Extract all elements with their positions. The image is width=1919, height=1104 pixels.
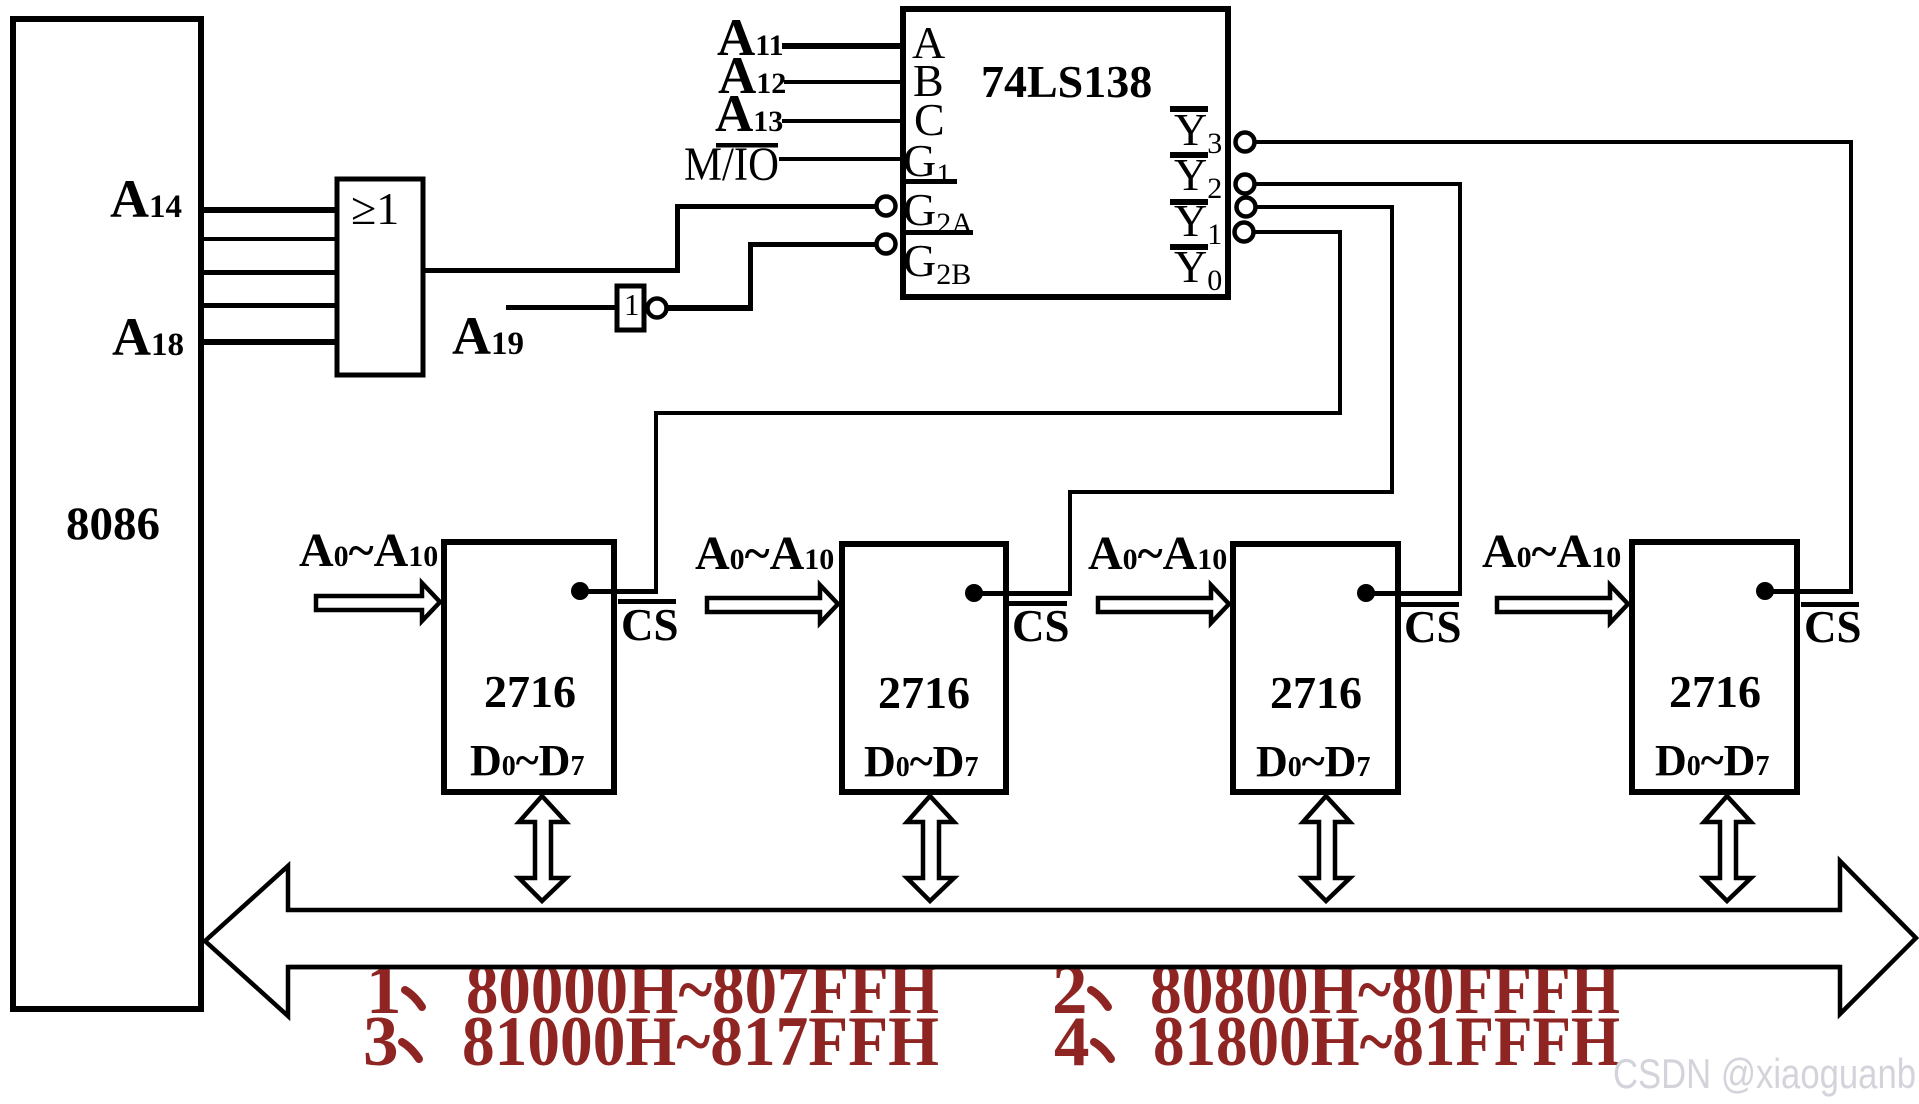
data arrow ROM3 <box>1303 796 1350 901</box>
wire A17 to OR gate <box>201 303 338 308</box>
label A19 <box>452 306 524 366</box>
ROM3 CS junction dot <box>1357 584 1462 602</box>
ROM U8 2716 <box>1632 542 1797 792</box>
pin label C <box>914 94 945 145</box>
wire Y0 to ROM1 CS <box>654 230 1342 593</box>
svg-text:2716: 2716 <box>1270 667 1362 718</box>
output bubble Y0 <box>1235 223 1254 242</box>
svg-text:4: 4 <box>1054 1003 1090 1081</box>
label A0~A10 ROM1 <box>299 524 438 577</box>
pin label G2B <box>903 235 971 291</box>
pin label A18 <box>112 307 184 367</box>
CPU U1 8086 <box>13 19 201 1009</box>
pin label A <box>912 17 945 68</box>
wire A12 to pin B <box>784 80 900 84</box>
data arrow ROM4 <box>1704 796 1751 901</box>
label A13 <box>715 85 783 143</box>
svg-text:81800H~81FFFH: 81800H~81FFFH <box>1153 1003 1620 1081</box>
svg-text:D0~D7: D0~D7 <box>864 737 978 786</box>
wire A14 to OR gate <box>201 207 338 213</box>
pin label A14 <box>110 169 182 229</box>
svg-text:2716: 2716 <box>1669 666 1761 717</box>
data arrow ROM2 <box>907 796 954 901</box>
wire Y3 to ROM4 CS <box>1254 140 1853 593</box>
output bubble Y2 <box>1236 175 1255 194</box>
wire Y1 to ROM2 CS <box>1068 205 1394 595</box>
label A11 <box>717 9 784 67</box>
svg-text:3: 3 <box>363 1003 399 1081</box>
svg-text:8086: 8086 <box>66 498 160 550</box>
label A0~A10 ROM2 <box>695 527 834 580</box>
pin label Y2 <box>1170 149 1222 205</box>
wire A13 to pin C <box>782 119 900 123</box>
wire Y2 to ROM3 CS <box>1255 182 1462 595</box>
address range annotation 4 <box>1054 1003 1620 1081</box>
svg-text:D0~D7: D0~D7 <box>470 736 584 785</box>
data arrow ROM1 <box>519 796 566 901</box>
address arrow ROM1 <box>316 583 440 621</box>
svg-text:CS: CS <box>1804 602 1862 652</box>
address range annotation 1 <box>366 951 939 1029</box>
svg-text:1: 1 <box>624 287 640 322</box>
ROM2 CS pin label <box>1009 601 1070 651</box>
wire A15 to OR gate <box>201 237 338 241</box>
wire M/IO to pin G1 <box>779 157 900 161</box>
pin label G2A <box>902 184 973 240</box>
svg-text:CS: CS <box>1404 602 1462 652</box>
pin label Y3 <box>1170 104 1222 160</box>
address arrow ROM4 <box>1497 585 1628 623</box>
svg-text:D0~D7: D0~D7 <box>1655 736 1769 785</box>
pin label Y1 <box>1170 195 1222 251</box>
wire A19 input to inverter <box>506 305 616 310</box>
output bubble Y1 <box>1237 198 1256 217</box>
svg-text:D0~D7: D0~D7 <box>1256 737 1370 786</box>
inverter output bubble <box>648 299 667 318</box>
input bubble G2B <box>877 235 896 254</box>
svg-text:2716: 2716 <box>878 667 970 718</box>
pin label B <box>913 55 944 106</box>
svg-text:CS: CS <box>1012 601 1070 651</box>
label A0~A10 ROM3 <box>1088 527 1227 580</box>
ROM3 CS pin label <box>1401 602 1462 652</box>
ROM2 CS junction dot <box>965 584 1072 602</box>
label A12 <box>718 47 786 105</box>
input bubble G2A <box>877 197 896 216</box>
address range annotation 3 <box>363 1003 939 1081</box>
ROM U7 2716 <box>1233 544 1398 792</box>
svg-text:74LS138: 74LS138 <box>981 56 1152 107</box>
address range annotation 2 <box>1052 951 1620 1029</box>
ROM4 CS junction dot <box>1756 582 1853 600</box>
data bus bottom edge over text <box>289 965 1840 970</box>
wire OR output to G2A <box>425 204 876 273</box>
address arrow ROM3 <box>1098 585 1229 623</box>
ROM1 CS junction dot <box>571 582 658 600</box>
decoder U4 74LS138 <box>903 9 1228 297</box>
wire A18 to OR gate <box>201 339 338 345</box>
watermark <box>1613 1050 1916 1097</box>
svg-text:2716: 2716 <box>484 666 576 717</box>
ROM U6 2716 <box>842 544 1006 792</box>
pin label Y0 <box>1170 241 1222 297</box>
data bus <box>205 861 1916 1016</box>
ROM4 CS pin label <box>1801 602 1862 652</box>
wire A16 to OR gate <box>201 270 338 275</box>
svg-text:CS: CS <box>621 600 679 650</box>
pin label G1 <box>902 135 957 191</box>
ROM U5 2716 <box>444 542 614 792</box>
inverter U3 <box>617 286 644 330</box>
wire A11 to pin A <box>782 43 900 49</box>
label A0~A10 ROM4 <box>1482 525 1621 578</box>
svg-text:≥1: ≥1 <box>351 183 399 234</box>
address arrow ROM2 <box>707 585 838 623</box>
svg-text:CSDN @xiaoguanb: CSDN @xiaoguanb <box>1613 1050 1916 1097</box>
label M/IO <box>684 138 779 191</box>
output bubble Y3 <box>1236 133 1255 152</box>
wire inverter output to G2B <box>667 242 876 311</box>
OR gate U2 <box>337 179 423 375</box>
svg-text:81000H~817FFH: 81000H~817FFH <box>462 1003 939 1081</box>
ROM1 CS pin label <box>618 599 679 650</box>
